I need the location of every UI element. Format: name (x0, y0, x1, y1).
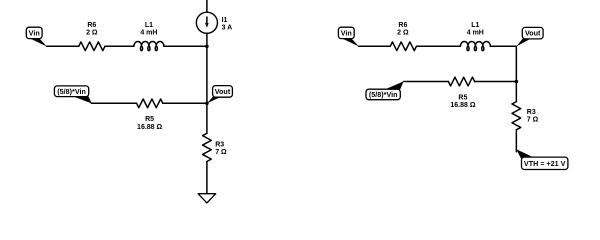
svg-text:L1: L1 (145, 22, 153, 29)
svg-text:Vout: Vout (525, 29, 541, 38)
svg-text:7 Ω: 7 Ω (215, 149, 227, 156)
svg-text:L1: L1 (471, 22, 479, 29)
svg-text:7 Ω: 7 Ω (527, 117, 539, 124)
svg-text:(5/8)*Vin: (5/8)*Vin (57, 87, 86, 96)
svg-text:R6: R6 (87, 22, 96, 29)
svg-text:4 mH: 4 mH (467, 30, 484, 37)
svg-text:2 Ω: 2 Ω (86, 30, 98, 37)
svg-text:R6: R6 (398, 22, 407, 29)
svg-text:I1: I1 (222, 17, 228, 24)
svg-text:VTH = +21 V: VTH = +21 V (524, 159, 566, 168)
svg-text:2 Ω: 2 Ω (397, 30, 409, 37)
svg-text:R5: R5 (145, 116, 154, 123)
svg-text:R3: R3 (527, 109, 536, 116)
svg-text:Vin: Vin (341, 29, 352, 38)
svg-text:3 A: 3 A (222, 25, 233, 32)
svg-text:16.88 Ω: 16.88 Ω (137, 124, 162, 131)
svg-text:4 mH: 4 mH (140, 30, 157, 37)
svg-text:R3: R3 (215, 142, 224, 149)
svg-text:Vin: Vin (29, 29, 40, 38)
svg-text:16.88 Ω: 16.88 Ω (450, 102, 475, 109)
svg-text:(5/8)*Vin: (5/8)*Vin (369, 90, 398, 99)
svg-text:Vout: Vout (215, 87, 231, 96)
svg-text:R5: R5 (458, 94, 467, 101)
